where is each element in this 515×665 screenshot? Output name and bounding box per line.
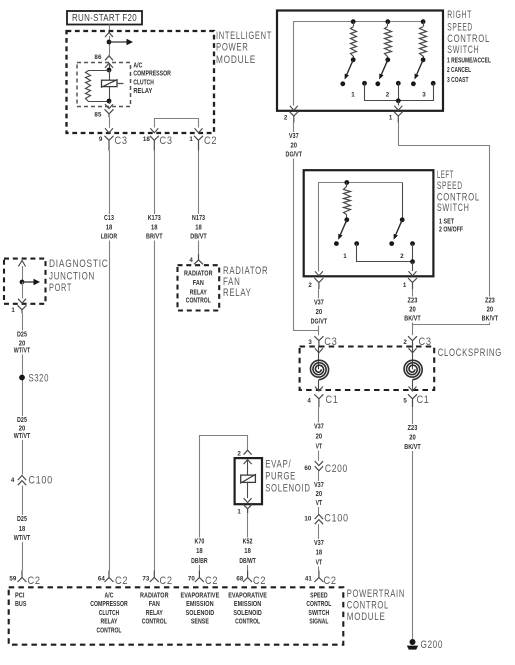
label left contact 1 [343,253,347,260]
wire V37 VT upper [318,407,320,461]
svg-text:20: 20 [409,433,416,442]
EVAP pin 1 female terminal [243,504,252,513]
switch arm 1 [345,57,356,79]
svg-text:4: 4 [307,398,311,405]
left switch top bus wire [319,183,403,272]
left switch pin 2 terminal [308,278,323,289]
svg-text:18: 18 [316,548,323,557]
contact dot 2a [375,81,380,86]
svg-text:60: 60 [304,465,312,472]
svg-text:D25: D25 [17,329,27,338]
svg-text:BK/VT: BK/VT [482,314,499,323]
svg-text:DB/VT: DB/VT [190,232,207,241]
svg-text:CONTROL: CONTROL [235,619,260,626]
svg-text:BR/VT: BR/VT [146,232,163,241]
svg-text:64: 64 [98,576,106,583]
wire V37 DG/VT left switch [317,289,320,335]
left output bus junction dot [410,259,415,264]
svg-text:PORT: PORT [49,282,72,294]
svg-text:C2: C2 [28,575,41,587]
svg-text:C13: C13 [104,213,114,222]
svg-text:Z23: Z23 [485,296,495,305]
label 1 (DJP pin) [11,307,15,314]
svg-text:3: 3 [422,92,426,99]
clockspring right entry arrow [409,348,417,353]
svg-text:D25: D25 [17,514,27,523]
svg-text:18: 18 [19,524,26,533]
label diagnostic junction port [49,258,109,294]
connector 73 C2 [142,571,172,588]
svg-text:18: 18 [196,546,203,555]
svg-text:10: 10 [304,516,312,523]
label clockspring [438,347,502,359]
svg-text:RIGHT: RIGHT [447,9,472,21]
svg-text:C2: C2 [205,575,218,587]
svg-text:BUS: BUS [15,601,27,608]
svg-text:18: 18 [151,222,158,231]
svg-text:MODULE: MODULE [216,54,256,66]
wire V37 VT lower [318,524,320,570]
right switch pin 1 terminal [389,112,403,123]
svg-text:V37: V37 [314,298,324,307]
svg-text:K52: K52 [243,537,253,546]
svg-text:SOLENOID: SOLENOID [233,610,262,617]
svg-text:DG/VT: DG/VT [311,317,328,326]
svg-text:59: 59 [9,576,17,583]
boundary arrow pin 1 [195,128,203,133]
svg-text:DIAGNOSTIC: DIAGNOSTIC [49,258,109,270]
svg-text:C3: C3 [160,135,173,147]
svg-text:2: 2 [284,115,288,122]
svg-text:SWITCH: SWITCH [437,202,470,214]
pin 85 male terminal [105,101,113,109]
label wire V37 20 DG/VT (left) [305,298,333,326]
pin 86 male terminal [105,56,113,61]
left switch arm 1 [338,217,349,239]
svg-text:3 COAST: 3 COAST [447,77,469,84]
wire V37 DG/VT right switch [294,123,319,331]
svg-text:18: 18 [244,546,251,555]
svg-text:SWITCH: SWITCH [308,610,329,617]
left switch pin 1 terminal [403,278,417,289]
label wire D25 18 WT/VT (3) [8,514,36,542]
svg-text:RELAY: RELAY [101,619,118,626]
svg-text:CONTROL: CONTROL [97,627,122,634]
right switch top bus wire [294,22,424,106]
left switch output bus [357,244,413,262]
svg-text:C100: C100 [28,474,53,486]
label wire Z23 20 BK/VT (far right) [476,296,504,323]
svg-text:18: 18 [143,136,151,143]
label wire K173 18 BR/VT [140,213,168,241]
svg-text:COMPRESSOR: COMPRESSOR [133,71,171,78]
svg-text:EVAPORATIVE: EVAPORATIVE [181,593,220,600]
svg-text:EMISSION: EMISSION [234,601,262,608]
label left speed control switch [437,169,480,233]
connector 1 C2 [189,135,217,151]
svg-text:1: 1 [11,307,15,314]
relay junction dot bottom [107,99,112,104]
svg-text:86: 86 [94,54,102,61]
label left contact 2 [400,253,404,260]
svg-text:SWITCH: SWITCH [447,44,479,56]
label A/C compressor clutch relay control [90,593,128,635]
svg-text:SPEED: SPEED [437,180,463,192]
svg-text:VT: VT [316,558,323,567]
svg-text:1: 1 [351,92,355,99]
connector 60 C200 [304,461,348,475]
connector 3 C3 [308,336,337,348]
svg-text:C100: C100 [324,513,349,525]
boundary arrow left switch pin 1 [409,271,417,276]
bus junction dot branch 1 [351,19,356,24]
output bus junction dot [396,98,401,103]
EVAP pin 2 female terminal [244,460,252,475]
right switch output bus [365,83,434,101]
wire D25 WT/VT upper [22,313,24,570]
svg-text:CONTROL: CONTROL [142,619,167,626]
wire K52 DB/WT [247,513,249,570]
left switch resistor [344,183,351,220]
EVAP solenoid wire to pin 1 [247,482,249,498]
svg-text:SPEED: SPEED [447,21,473,33]
left contact dot 2a [389,241,394,246]
svg-text:RELAY: RELAY [146,610,163,617]
EVAP solenoid symbol [240,474,256,483]
svg-text:SOLENOID: SOLENOID [186,610,215,617]
svg-text:20: 20 [487,305,494,314]
connector 68 C2 [236,571,266,588]
svg-text:S320: S320 [29,373,50,385]
svg-text:DG/VT: DG/VT [286,150,303,159]
wire C13 LB/OR [109,151,111,571]
connector 18 C3 [143,135,173,151]
svg-text:FAN: FAN [149,601,160,608]
boundary arrow right switch pin 1 [394,106,402,111]
left contact dot 1a [334,241,339,246]
svg-text:2 CANCEL: 2 CANCEL [447,67,471,74]
EVAP purge solenoid box [235,458,262,504]
label intelligent power module [216,30,272,66]
label radiator fan relay (exterior) [223,265,268,299]
svg-text:V37: V37 [314,422,324,431]
wire Z23 BK/VT to clockspring [412,289,414,335]
label 2 (EVAP pin) [237,451,241,458]
svg-text:4: 4 [189,257,193,264]
svg-text:C2: C2 [324,575,337,587]
svg-text:POWER: POWER [216,42,249,54]
wire K173 BR/VT [154,151,156,571]
svg-text:Z23: Z23 [408,296,418,305]
svg-text:C2: C2 [204,135,217,147]
label wire V37 20 DG/VT (right) [280,131,308,159]
clockspring left coil [310,347,328,380]
svg-text:INTELLIGENT: INTELLIGENT [216,30,272,42]
junction dot [107,40,112,45]
svg-text:RELAY: RELAY [133,88,152,95]
svg-text:2: 2 [308,282,312,289]
svg-text:JUNCTION: JUNCTION [49,271,95,283]
svg-text:EVAPORATIVE: EVAPORATIVE [228,593,267,600]
svg-text:V37: V37 [314,480,324,489]
DJP arrow right to other circuits [22,279,40,285]
contact dot 3a [411,81,416,86]
bus junction dot branch 3 [421,19,426,24]
connector 4 C1 [307,394,338,407]
svg-text:DB/WT: DB/WT [239,556,256,565]
right switch pin 2 terminal [284,112,298,123]
label speed control switch signal [306,593,331,626]
boundary arrow left switch pin 2 [315,271,323,276]
label evaporative emission solenoid control [228,593,267,626]
svg-text:BK/VT: BK/VT [404,314,421,323]
svg-text:C3: C3 [115,135,128,147]
left speed control switch box [304,170,434,276]
svg-text:70: 70 [188,576,196,583]
svg-text:POWERTRAIN: POWERTRAIN [347,588,405,600]
svg-text:SOLENOID: SOLENOID [265,482,310,494]
svg-text:20: 20 [291,140,298,149]
svg-text:SIGNAL: SIGNAL [309,619,328,626]
svg-text:9: 9 [99,136,103,143]
svg-text:2: 2 [403,339,407,346]
svg-text:RADIATOR: RADIATOR [184,270,213,277]
svg-text:C1: C1 [417,394,430,406]
label right speed control switch [447,9,491,84]
resistor branch 1 [351,22,357,60]
label wire V37 18 VT (3) [311,538,327,567]
svg-text:68: 68 [236,576,244,583]
connector 2 C3 [403,336,431,348]
wire Z23 BK/VT to ground [412,407,414,639]
label wire C13 18 LB/OR [95,213,123,241]
svg-text:2: 2 [237,451,241,458]
clockspring left exit arrow [315,380,323,391]
svg-text:SPEED: SPEED [310,593,328,600]
svg-text:C200: C200 [325,463,348,475]
DJP pin female terminal [18,305,27,313]
label wire Z23 20 BK/VT (left pin1) [399,296,427,323]
svg-text:SENSE: SENSE [191,619,209,626]
svg-text:1: 1 [237,509,241,516]
svg-text:LB/OR: LB/OR [101,232,118,241]
label 86 [94,54,102,61]
svg-text:PCI: PCI [15,593,25,600]
clockspring right coil [404,347,422,380]
radiator fan relay dashed box [178,265,220,310]
svg-text:Z23: Z23 [408,423,418,432]
connector 70 C2 [188,571,218,588]
clockspring left entry arrow [315,348,323,353]
svg-text:C2: C2 [160,575,173,587]
svg-text:18: 18 [195,222,202,231]
svg-text:CONTROL: CONTROL [347,600,389,612]
contact dot 1b [362,81,367,86]
label wire K52 18 DB/WT [234,537,262,566]
wire fuse to IPM pin [109,25,111,33]
wire pin85 to IPM edge [109,117,111,128]
svg-text:3: 3 [308,339,312,346]
svg-text:20: 20 [316,432,323,441]
label wire N173 18 DB/VT [185,213,213,241]
left contact dot 1b [354,241,359,246]
label contact 3 [422,92,426,99]
EVAP pin 2 male terminal [244,450,252,455]
intelligent power module dashed box [67,31,215,133]
DJP pin male terminal [18,282,26,303]
wire coil bottom [88,101,109,103]
wire to junction [109,36,111,56]
DJP arrow up to other circuits [18,261,25,283]
svg-text:MODULE: MODULE [347,611,386,623]
left contact dot 2b [410,241,415,246]
svg-text:EVAP/: EVAP/ [265,459,291,471]
svg-text:1: 1 [189,136,193,143]
label contact 1 [351,92,355,99]
svg-text:EMISSION: EMISSION [186,601,214,608]
svg-text:C2: C2 [115,575,128,587]
left switch branch 2 wire [402,183,404,220]
svg-text:2: 2 [400,253,404,260]
pin 85 female terminal [105,109,114,117]
wire N173 DB/VT [198,151,200,254]
connector 4 C100 [10,474,53,486]
svg-text:20: 20 [316,489,323,498]
wire EVAP pin2 to PCM pin70 [200,436,248,571]
svg-text:CLOCKSPRING: CLOCKSPRING [438,347,502,359]
svg-text:C2: C2 [253,575,266,587]
boundary arrow right switch pin 2 [290,106,298,111]
svg-text:4: 4 [11,477,15,484]
DJP junction dot [20,280,25,285]
svg-text:WT/VT: WT/VT [14,533,31,542]
connector 5 C1 [403,394,429,407]
ground G200 [407,639,443,651]
connector 9 C3 [99,135,128,151]
svg-text:COMPRESSOR: COMPRESSOR [90,601,128,608]
label wire V37 20 VT (1) [311,422,327,451]
svg-text:K173: K173 [148,213,161,222]
pin 86 female terminal [105,63,113,70]
label 1 (EVAP pin) [237,509,241,516]
svg-text:1 RESUME/ACCEL: 1 RESUME/ACCEL [447,57,491,64]
svg-text:CONTROL: CONTROL [306,601,331,608]
svg-text:1: 1 [403,282,407,289]
svg-text:2: 2 [386,92,390,99]
label contact 2 [386,92,390,99]
contact dot 3b [431,81,436,86]
connector 41 C2 [305,571,337,588]
svg-text:RELAY: RELAY [190,290,207,297]
svg-text:1: 1 [343,253,347,260]
svg-text:20: 20 [316,307,323,316]
svg-text:RUN-START F20: RUN-START F20 [72,13,137,24]
diagnostic junction port dashed box [4,259,46,304]
label A/C compressor clutch relay [133,62,171,95]
svg-text:RELAY: RELAY [223,287,252,299]
right speed control switch box [277,11,443,111]
svg-text:V37: V37 [314,538,324,547]
svg-text:K70: K70 [194,537,204,546]
pin terminal at IPM top [105,33,113,38]
label wire D25 20 WT/VT (1) [8,329,36,354]
svg-text:FAN: FAN [193,280,204,287]
connector 10 C100 [304,513,348,525]
fuse RUN-START F20 box [67,11,142,25]
svg-text:VT: VT [316,498,323,507]
svg-text:CONTROL: CONTROL [447,33,490,45]
EVAP pin 1 male terminal [244,498,252,503]
contact dot 1a [340,81,345,86]
left switch pin 1 wire [412,262,414,271]
label evaporative emission solenoid sense [181,593,220,626]
svg-text:20: 20 [409,305,416,314]
clockspring right exit arrow [409,380,417,391]
clockspring dashed box [300,347,435,391]
svg-text:CONTROL: CONTROL [186,297,211,304]
arrow to other circuits [109,39,133,45]
relay solenoid symbol [101,70,124,101]
svg-text:CLUTCH: CLUTCH [99,610,119,617]
boundary arrow pin 9 [105,128,113,133]
switch arm 3 [415,57,426,79]
svg-text:C1: C1 [326,394,339,406]
label EVAP/PURGE SOLENOID [265,459,310,495]
svg-text:WT/VT: WT/VT [14,431,31,440]
svg-text:5: 5 [403,398,407,405]
switch arm 2 [379,57,390,79]
connector 64 C2 [98,571,128,588]
label radiator fan relay control [140,593,169,626]
svg-text:VT: VT [316,442,323,451]
svg-text:DB/BR: DB/BR [191,556,208,565]
svg-text:A/C: A/C [105,593,114,600]
relay coil junction dot top [107,68,112,73]
svg-text:CLUTCH: CLUTCH [133,79,153,86]
svg-text:PURGE: PURGE [265,471,296,483]
label wire K70 18 DB/BR [185,537,213,566]
label 85 [94,111,102,118]
wire to coil resistor [88,70,109,72]
A/C compressor clutch relay dashed box [77,63,131,107]
IPM jumper wire between pins 18 and 1 [155,119,199,128]
resistor branch 2 [385,22,392,60]
label PCI BUS [15,593,27,608]
resistor branch 3 [420,22,427,60]
svg-text:BK/VT: BK/VT [404,442,421,451]
left switch bus junction dot [344,180,349,185]
left switch arm 2 [394,217,405,239]
label wire V37 20 VT (2) [311,480,327,507]
right switch pin 1 wire [398,101,400,106]
svg-text:WT/VT: WT/VT [14,346,31,355]
relay coil resistor [86,71,91,102]
svg-text:A/C: A/C [133,62,142,69]
wire V37 VT mid [318,471,320,514]
svg-text:85: 85 [94,111,102,118]
contact dot 2b [396,81,401,86]
splice S320 [19,373,49,385]
svg-text:18: 18 [106,222,113,231]
svg-text:RADIATOR: RADIATOR [140,593,169,600]
label radiator fan relay control (inside) [184,270,213,304]
powertrain control module dashed box [9,587,344,644]
svg-text:G200: G200 [421,639,444,651]
boundary arrow pin 18 [150,128,158,133]
radiator fan relay pin 4 [189,254,203,264]
label wire Z23 20 BK/VT (lower) [399,423,427,451]
svg-text:41: 41 [305,576,313,583]
